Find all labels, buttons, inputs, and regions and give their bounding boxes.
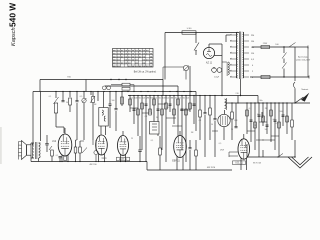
svg-text:25: 25 <box>131 138 133 140</box>
wire right verticals below bus <box>257 96 259 104</box>
wire drop 86 from upper bus <box>85 80 87 92</box>
wire left vertical 2 <box>40 92 42 142</box>
capacitor cathode V3 <box>138 149 141 151</box>
primary taps <box>230 34 238 36</box>
svg-text:UKW: UKW <box>220 150 224 152</box>
tone resistor <box>49 146 52 150</box>
svg-text:0,1: 0,1 <box>151 140 154 142</box>
component band detector section <box>195 103 197 131</box>
resistor screen V1 <box>79 147 82 153</box>
wire rectifier plate <box>208 44 210 47</box>
wire right band cross links <box>247 130 255 132</box>
wire bottom bus right <box>147 169 232 171</box>
svg-text:100: 100 <box>275 44 278 46</box>
wire links right of V5 <box>256 139 275 141</box>
trimmer capacitors pair <box>102 86 106 90</box>
scan edge smudge <box>0 127 2 164</box>
wire can bottom <box>223 127 225 140</box>
capacitor under V1 <box>59 158 61 162</box>
wire bottom right <box>247 156 295 158</box>
capacitor right mid <box>261 112 263 118</box>
component band output section <box>246 103 248 134</box>
svg-text:4W 700: 4W 700 <box>89 164 97 166</box>
capacitor coupling left <box>69 92 71 98</box>
wire bus main <box>33 91 196 93</box>
svg-text:0,1: 0,1 <box>178 97 181 99</box>
svg-text:0,5: 0,5 <box>219 143 222 145</box>
svg-text:2M: 2M <box>146 97 149 99</box>
resistor mains dropper <box>182 31 196 34</box>
wire bottom bus left <box>31 161 147 163</box>
wire drops band2 right <box>231 103 233 112</box>
tube V2 <box>96 135 108 155</box>
wire drop 98 <box>97 92 99 102</box>
wire vertical from top line <box>164 33 166 80</box>
wire pot to left <box>163 66 183 68</box>
wire right band bottom <box>246 144 248 157</box>
pot arrow mid <box>82 148 87 154</box>
wire bottom right bus <box>226 102 310 104</box>
wire V5 left taps <box>229 151 238 153</box>
svg-text:50: 50 <box>257 114 259 116</box>
svg-text:0,1: 0,1 <box>145 116 148 118</box>
svg-text:100: 100 <box>162 97 165 99</box>
svg-text:UCL 11: UCL 11 <box>235 163 243 165</box>
tube V4 <box>174 136 187 158</box>
svg-text:0,5: 0,5 <box>80 96 83 98</box>
wire IF can top <box>103 92 105 108</box>
svg-text:50: 50 <box>66 102 68 104</box>
svg-text:U 40: U 40 <box>187 28 192 30</box>
svg-text:50: 50 <box>211 124 213 126</box>
resistor with tap <box>54 103 57 113</box>
oscillator coil choke <box>225 99 227 109</box>
svg-text:Netzant.: Netzant. <box>301 88 309 91</box>
resistor cathode V1 <box>74 147 77 153</box>
electrolytic can capacitor <box>218 114 230 126</box>
wire left vertical to speaker <box>32 92 34 146</box>
svg-text:Bei LW ca. 2% geänd.: Bei LW ca. 2% geänd. <box>134 72 157 74</box>
svg-text:100: 100 <box>134 97 137 99</box>
wire mains top <box>165 32 239 34</box>
wire bend to V1 grid <box>55 120 57 127</box>
svg-text:0,5: 0,5 <box>276 123 279 125</box>
svg-text:0,5: 0,5 <box>273 119 276 121</box>
secondary taps with voltage labels <box>244 34 249 36</box>
tube V3 <box>118 136 129 156</box>
tube V5 <box>238 139 250 159</box>
wire drop 77 <box>76 92 78 101</box>
wire choke drop <box>224 110 226 114</box>
tube V1 output <box>58 134 72 156</box>
svg-text:EBF 11: EBF 11 <box>172 161 180 163</box>
trimmer circle mid <box>94 150 98 154</box>
rectifier tube AZ11 <box>203 47 214 58</box>
wire bus second <box>105 85 178 87</box>
wire right vertical <box>294 47 296 81</box>
power transformer secondary winding <box>243 32 244 78</box>
tone capacitor <box>46 135 48 143</box>
resistor lower run <box>261 76 270 79</box>
wire bus lower <box>128 95 258 97</box>
wire vertical 190 <box>189 66 191 96</box>
wire bus links <box>162 80 164 96</box>
resistor pair mid top <box>122 83 130 86</box>
components under V4 <box>159 148 162 155</box>
switch bottom right <box>278 154 283 158</box>
svg-text:100: 100 <box>112 100 115 102</box>
wire bottom bus step <box>146 162 148 171</box>
svg-text:Kapsch: Kapsch <box>11 27 17 46</box>
svg-text:50: 50 <box>286 116 288 118</box>
mains antenna arrow <box>295 97 304 103</box>
coil box AF <box>150 122 160 135</box>
ground symbol <box>288 157 312 168</box>
svg-text:0,5: 0,5 <box>186 97 189 99</box>
svg-text:100: 100 <box>265 129 268 131</box>
wire transformer top to mains line <box>238 32 241 34</box>
capacitor 113 <box>109 103 112 105</box>
svg-text:0,1: 0,1 <box>56 155 59 157</box>
dots bottom bus <box>59 161 60 162</box>
wire tube V4 pins <box>176 157 178 171</box>
power transformer core <box>238 32 240 80</box>
wire transformer bottom drop <box>240 79 242 96</box>
wire secondary run upper <box>252 46 295 48</box>
wire secondary run lower <box>250 76 309 78</box>
svg-text:0,1: 0,1 <box>130 97 133 99</box>
resistor under V1b <box>64 156 67 161</box>
IF transformer can <box>99 108 108 127</box>
svg-text:U12: U12 <box>52 141 57 143</box>
svg-text:AZ 11: AZ 11 <box>206 62 213 65</box>
component band IF section <box>129 95 130 96</box>
svg-text:1M: 1M <box>170 97 173 99</box>
power transformer primary winding <box>236 32 237 78</box>
wire drop 63 <box>62 92 64 101</box>
svg-text:0,1: 0,1 <box>254 125 257 127</box>
wire mains pair vertical <box>307 47 309 77</box>
svg-text:0,2: 0,2 <box>167 107 170 109</box>
wire tube V1 pins <box>61 155 63 162</box>
wire tube V5 pins <box>240 158 242 170</box>
pot 93 <box>92 97 95 103</box>
svg-text:25: 25 <box>287 121 289 123</box>
wire rectifier cathode <box>214 55 222 57</box>
svg-text:W 70 CB: W 70 CB <box>253 163 262 165</box>
svg-text:50: 50 <box>139 97 141 99</box>
resistor 122 <box>121 97 124 104</box>
voltage selector link <box>283 47 285 53</box>
alignment table <box>113 49 154 68</box>
svg-text:0,1: 0,1 <box>199 120 202 122</box>
wire speaker links <box>30 143 32 145</box>
title Kapsch 540 W <box>8 3 18 46</box>
loudspeaker <box>22 141 27 160</box>
wire ht <box>221 44 223 96</box>
capacitor pair mid <box>115 92 117 109</box>
svg-text:0,5: 0,5 <box>142 97 145 99</box>
svg-text:50: 50 <box>231 129 233 131</box>
svg-text:100: 100 <box>280 111 283 113</box>
svg-text:4W 76 M: 4W 76 M <box>207 167 216 169</box>
svg-text:540 W: 540 W <box>8 3 18 27</box>
wire band1 cross links <box>130 107 138 109</box>
output transformer <box>32 143 34 158</box>
switch mains right <box>289 43 296 48</box>
wire primary feed <box>226 34 230 36</box>
filter choke <box>228 62 229 75</box>
resistor right of band <box>291 120 294 127</box>
svg-text:0,1: 0,1 <box>154 97 157 99</box>
wire tube V3 pins <box>120 155 122 162</box>
wire IF can bottom <box>100 126 102 135</box>
svg-text:0,1: 0,1 <box>49 96 52 98</box>
twin electrolytic capacitors <box>212 68 217 73</box>
wire bus B+ upper <box>40 79 163 81</box>
svg-text:Spannungs-: Spannungs- <box>298 57 309 59</box>
svg-text:50: 50 <box>183 97 185 99</box>
trimmer potentiometer <box>82 98 86 102</box>
svg-text:50: 50 <box>159 97 161 99</box>
svg-text:wähler 110-220V: wähler 110-220V <box>296 59 311 62</box>
resistor barretter <box>261 46 270 49</box>
svg-text:0,1: 0,1 <box>249 108 252 110</box>
svg-text:220V: 220V <box>263 43 268 45</box>
wire drop 91 <box>90 92 92 96</box>
wire tube V2 pins <box>98 154 100 162</box>
switch mains <box>195 33 197 44</box>
switch wave change <box>55 92 57 99</box>
wire speaker bottom <box>30 158 32 162</box>
svg-text:0,2: 0,2 <box>166 97 169 99</box>
wire hop <box>293 82 295 88</box>
wire ground stem <box>294 140 296 157</box>
svg-text:50: 50 <box>156 117 158 119</box>
potentiometer volume <box>183 65 188 70</box>
